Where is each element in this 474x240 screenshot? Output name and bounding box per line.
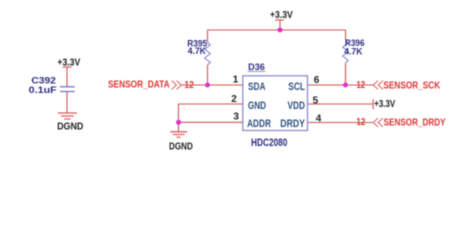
- svg-text:DGND: DGND: [169, 142, 193, 153]
- svg-text:2: 2: [231, 94, 237, 105]
- svg-text:SENSOR_DRDY: SENSOR_DRDY: [384, 117, 446, 128]
- svg-text:4.7K: 4.7K: [344, 46, 362, 57]
- svg-text:+3.3V: +3.3V: [57, 58, 80, 69]
- svg-text:ADDR: ADDR: [247, 118, 271, 130]
- svg-text:5: 5: [313, 96, 319, 107]
- svg-text:+3.3V: +3.3V: [270, 10, 293, 21]
- svg-text:+3.3V: +3.3V: [374, 99, 395, 110]
- svg-text:DGND: DGND: [57, 122, 83, 133]
- svg-text:HDC2080: HDC2080: [251, 137, 287, 149]
- svg-text:3: 3: [233, 112, 239, 123]
- svg-text:0.1uF: 0.1uF: [29, 85, 57, 96]
- svg-text:4: 4: [316, 114, 322, 125]
- svg-text:SDA: SDA: [248, 81, 265, 93]
- svg-text:12: 12: [356, 117, 365, 128]
- svg-text:1: 1: [233, 75, 239, 86]
- svg-text:12: 12: [356, 80, 365, 91]
- svg-text:D36: D36: [248, 62, 265, 73]
- svg-text:12: 12: [184, 80, 194, 91]
- svg-text:6: 6: [314, 75, 320, 86]
- svg-text:4.7K: 4.7K: [188, 46, 206, 57]
- svg-text:SCL: SCL: [288, 81, 305, 93]
- svg-text:GND: GND: [248, 100, 266, 112]
- svg-text:DRDY: DRDY: [280, 118, 305, 130]
- svg-text:SENSOR_SCK: SENSOR_SCK: [383, 80, 440, 91]
- svg-text:SENSOR_DATA: SENSOR_DATA: [108, 80, 170, 91]
- svg-text:VDD: VDD: [288, 100, 305, 112]
